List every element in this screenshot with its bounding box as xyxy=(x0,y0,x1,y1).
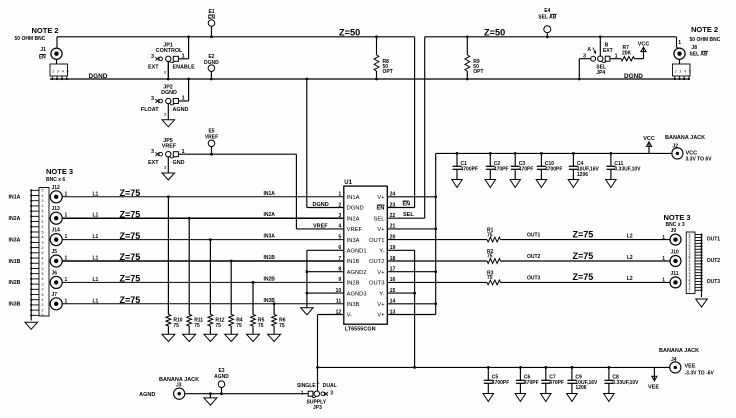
svg-text:L1: L1 xyxy=(93,256,99,262)
svg-text:BNC x 6: BNC x 6 xyxy=(46,177,65,183)
svg-text:VCC: VCC xyxy=(638,42,650,48)
svg-text:5: 5 xyxy=(42,230,44,234)
svg-text:E4: E4 xyxy=(544,8,550,14)
svg-text:J6: J6 xyxy=(52,270,58,276)
svg-text:1: 1 xyxy=(182,149,185,155)
svg-text:Z=75: Z=75 xyxy=(120,188,141,198)
svg-text:1: 1 xyxy=(662,278,665,284)
svg-text:VEE: VEE xyxy=(648,385,659,391)
svg-text:0.33UF,10V: 0.33UF,10V xyxy=(612,380,639,386)
svg-text:L1: L1 xyxy=(93,277,99,283)
svg-text:DGND: DGND xyxy=(313,202,329,208)
svg-text:V+: V+ xyxy=(377,270,385,276)
svg-text:EN: EN xyxy=(376,206,384,212)
svg-text:VEE: VEE xyxy=(685,364,696,370)
svg-text:1: 1 xyxy=(65,256,68,262)
svg-text:75: 75 xyxy=(173,323,179,329)
svg-text:SINGLE: SINGLE xyxy=(297,383,316,389)
svg-text:L2: L2 xyxy=(627,276,633,282)
svg-text:5: 5 xyxy=(42,189,44,193)
svg-text:VREF: VREF xyxy=(205,135,218,141)
svg-text:V+: V+ xyxy=(377,302,385,308)
svg-text:OUT1: OUT1 xyxy=(527,233,541,239)
svg-text:75: 75 xyxy=(236,323,242,329)
svg-text:2: 2 xyxy=(52,70,54,74)
svg-text:L1: L1 xyxy=(93,191,99,197)
svg-text:4700PF: 4700PF xyxy=(492,380,510,386)
svg-text:75: 75 xyxy=(487,254,493,260)
svg-text:4: 4 xyxy=(42,298,44,302)
svg-text:1: 1 xyxy=(662,235,665,241)
svg-text:22: 22 xyxy=(390,213,396,219)
svg-text:J3: J3 xyxy=(176,383,182,389)
svg-text:Z=75: Z=75 xyxy=(120,209,141,219)
svg-text:3: 3 xyxy=(42,262,44,266)
svg-text:3: 3 xyxy=(151,149,154,155)
svg-text:4: 4 xyxy=(684,70,686,74)
svg-text:5: 5 xyxy=(689,70,691,74)
svg-text:IN2B: IN2B xyxy=(9,280,21,286)
svg-text:VCC: VCC xyxy=(643,136,655,142)
svg-text:4: 4 xyxy=(338,224,341,230)
svg-text:J13: J13 xyxy=(52,206,61,212)
svg-text:IN3A: IN3A xyxy=(264,234,276,240)
svg-text:BANANA JACK: BANANA JACK xyxy=(665,135,705,141)
svg-text:470PF: 470PF xyxy=(519,167,534,173)
svg-text:50 OHM BNC: 50 OHM BNC xyxy=(690,37,721,43)
svg-text:NOTE 3: NOTE 3 xyxy=(664,213,691,222)
svg-text:2: 2 xyxy=(164,166,166,170)
svg-text:2: 2 xyxy=(42,246,44,250)
svg-text:JP4: JP4 xyxy=(596,70,605,76)
svg-text:470PF: 470PF xyxy=(494,167,509,173)
svg-text:SEL AB: SEL AB xyxy=(538,15,556,21)
svg-text:JP3: JP3 xyxy=(313,405,322,411)
svg-text:IN1B: IN1B xyxy=(347,259,360,265)
svg-text:3: 3 xyxy=(57,70,59,74)
svg-text:OUT2: OUT2 xyxy=(707,258,721,264)
svg-text:2: 2 xyxy=(42,308,44,312)
svg-text:3: 3 xyxy=(679,70,681,74)
svg-text:AGND: AGND xyxy=(214,374,229,380)
svg-text:V+: V+ xyxy=(377,313,385,319)
svg-text:V+: V+ xyxy=(377,195,385,201)
svg-text:FLOAT: FLOAT xyxy=(141,107,159,113)
svg-text:EXT: EXT xyxy=(148,160,159,166)
svg-text:Z=75: Z=75 xyxy=(573,251,594,261)
svg-text:3: 3 xyxy=(330,391,333,397)
svg-text:5: 5 xyxy=(67,70,69,74)
svg-text:SEL: SEL xyxy=(374,216,386,222)
svg-text:VREF: VREF xyxy=(162,143,177,149)
svg-text:EN: EN xyxy=(208,15,215,21)
svg-text:BNC x 3: BNC x 3 xyxy=(666,222,685,228)
svg-text:Z=75: Z=75 xyxy=(120,274,141,284)
svg-text:OUT1: OUT1 xyxy=(369,238,384,244)
svg-text:IN1B: IN1B xyxy=(9,259,21,265)
svg-text:75: 75 xyxy=(258,323,264,329)
svg-text:IN3A: IN3A xyxy=(347,238,360,244)
svg-text:J1: J1 xyxy=(40,47,46,53)
svg-text:3: 3 xyxy=(42,220,44,224)
svg-text:4: 4 xyxy=(42,194,44,198)
svg-text:3: 3 xyxy=(42,199,44,203)
svg-text:DUAL: DUAL xyxy=(323,383,337,389)
svg-text:L2: L2 xyxy=(627,255,633,261)
svg-text:J4: J4 xyxy=(671,357,677,363)
svg-text:1: 1 xyxy=(65,277,68,283)
svg-text:GND: GND xyxy=(173,160,185,166)
svg-text:Z=75: Z=75 xyxy=(573,229,594,239)
svg-text:IN3B: IN3B xyxy=(347,302,360,308)
svg-text:EN: EN xyxy=(39,55,46,61)
svg-text:OPT: OPT xyxy=(473,69,483,75)
svg-text:5: 5 xyxy=(42,314,44,318)
svg-text:IN2A: IN2A xyxy=(347,216,360,222)
svg-text:4: 4 xyxy=(42,277,44,281)
svg-text:75: 75 xyxy=(487,232,493,238)
svg-text:DGND: DGND xyxy=(624,73,643,80)
svg-text:2: 2 xyxy=(164,70,166,74)
svg-text:L2: L2 xyxy=(627,233,633,239)
svg-text:2: 2 xyxy=(689,288,691,292)
svg-text:1: 1 xyxy=(65,191,68,197)
svg-text:Y-: Y- xyxy=(379,291,384,297)
svg-text:ENABLE: ENABLE xyxy=(173,65,196,71)
svg-text:AGND1: AGND1 xyxy=(347,249,367,255)
svg-text:IN3A: IN3A xyxy=(9,237,21,243)
svg-text:NOTE 2: NOTE 2 xyxy=(32,26,59,35)
svg-text:20K: 20K xyxy=(622,50,632,56)
svg-text:2: 2 xyxy=(164,113,166,117)
svg-text:OUT2: OUT2 xyxy=(369,259,384,265)
svg-text:5: 5 xyxy=(42,209,44,213)
svg-text:NOTE 2: NOTE 2 xyxy=(691,25,718,34)
svg-text:3: 3 xyxy=(583,53,586,59)
svg-text:0.33UF,10V: 0.33UF,10V xyxy=(614,167,641,173)
svg-text:Y-: Y- xyxy=(379,249,384,255)
svg-text:1: 1 xyxy=(65,298,68,304)
svg-text:VREF: VREF xyxy=(313,223,328,229)
svg-text:50 OHM BNC: 50 OHM BNC xyxy=(15,36,46,42)
svg-text:2: 2 xyxy=(338,202,341,208)
svg-text:3: 3 xyxy=(42,282,44,286)
svg-text:V-: V- xyxy=(347,313,353,319)
svg-text:L1: L1 xyxy=(93,298,99,304)
svg-text:1: 1 xyxy=(662,256,665,262)
svg-text:OUT2: OUT2 xyxy=(527,254,541,260)
svg-text:EN: EN xyxy=(403,202,411,208)
svg-text:Z=50: Z=50 xyxy=(484,28,505,38)
svg-text:4: 4 xyxy=(42,235,44,239)
svg-text:23: 23 xyxy=(390,202,396,208)
svg-text:75: 75 xyxy=(194,323,200,329)
svg-text:IN1A: IN1A xyxy=(347,195,360,201)
svg-text:BANANA JACK: BANANA JACK xyxy=(659,348,699,354)
svg-text:5: 5 xyxy=(42,251,44,255)
svg-text:LT6555CGN: LT6555CGN xyxy=(345,327,376,333)
svg-text:3: 3 xyxy=(42,241,44,245)
svg-text:EXT: EXT xyxy=(603,48,613,54)
svg-text:AGND: AGND xyxy=(139,392,155,398)
svg-text:IN1A: IN1A xyxy=(264,191,276,197)
svg-text:IN2A: IN2A xyxy=(9,216,21,222)
svg-text:3: 3 xyxy=(42,303,44,307)
svg-text:**: ** xyxy=(317,381,321,386)
svg-text:1: 1 xyxy=(182,53,185,59)
svg-text:470PF: 470PF xyxy=(549,380,564,386)
svg-text:AGND2: AGND2 xyxy=(347,270,367,276)
svg-text:IN2B: IN2B xyxy=(264,276,276,282)
svg-text:2: 2 xyxy=(675,70,677,74)
svg-text:5: 5 xyxy=(42,272,44,276)
svg-text:75: 75 xyxy=(279,323,285,329)
svg-text:AGND3: AGND3 xyxy=(347,291,367,297)
svg-text:DGND: DGND xyxy=(204,60,219,66)
svg-text:4: 4 xyxy=(42,256,44,260)
svg-text:CONTROL: CONTROL xyxy=(156,48,183,54)
svg-text:IN1A: IN1A xyxy=(9,195,21,201)
svg-text:1: 1 xyxy=(182,96,185,102)
svg-text:OUT1: OUT1 xyxy=(707,236,721,242)
svg-text:L1: L1 xyxy=(93,234,99,240)
svg-text:3: 3 xyxy=(151,96,154,102)
svg-text:J10: J10 xyxy=(671,250,680,256)
svg-text:SEL: SEL xyxy=(403,212,414,218)
svg-text:J9: J9 xyxy=(671,228,677,234)
svg-text:Z=75: Z=75 xyxy=(120,231,141,241)
svg-text:5: 5 xyxy=(42,293,44,297)
svg-text:AGND: AGND xyxy=(173,107,189,113)
svg-text:OPT: OPT xyxy=(383,69,393,75)
svg-text:Z=75: Z=75 xyxy=(120,252,141,262)
svg-text:V+: V+ xyxy=(377,227,385,233)
svg-text:OUT3: OUT3 xyxy=(707,279,721,285)
svg-text:DGND: DGND xyxy=(347,206,364,212)
svg-text:1: 1 xyxy=(65,213,68,219)
svg-text:L1: L1 xyxy=(93,213,99,219)
svg-text:1: 1 xyxy=(301,390,304,396)
svg-text:VREF: VREF xyxy=(347,227,363,233)
svg-text:IN2B: IN2B xyxy=(347,281,360,287)
svg-text:2: 2 xyxy=(42,225,44,229)
svg-text:4700PF: 4700PF xyxy=(545,167,563,173)
svg-text:4: 4 xyxy=(42,215,44,219)
svg-text:J2: J2 xyxy=(673,144,679,150)
svg-text:4: 4 xyxy=(62,70,64,74)
svg-text:J12: J12 xyxy=(52,185,61,191)
svg-text:75: 75 xyxy=(215,323,221,329)
svg-text:SEL AB: SEL AB xyxy=(690,52,708,58)
svg-text:2: 2 xyxy=(42,204,44,208)
svg-text:1206: 1206 xyxy=(577,172,588,178)
svg-text:-3.3V TO -6V: -3.3V TO -6V xyxy=(685,371,715,377)
svg-text:DGND: DGND xyxy=(161,90,177,96)
svg-text:A: A xyxy=(587,47,591,53)
svg-text:1: 1 xyxy=(678,40,681,46)
svg-text:J8: J8 xyxy=(692,45,698,51)
svg-text:1206: 1206 xyxy=(575,385,586,391)
svg-text:470PF: 470PF xyxy=(524,380,539,386)
svg-text:OUT3: OUT3 xyxy=(527,275,541,281)
svg-text:NOTE 3: NOTE 3 xyxy=(46,167,73,176)
svg-text:J11: J11 xyxy=(671,271,679,277)
svg-text:75: 75 xyxy=(487,275,493,281)
svg-text:Z=75: Z=75 xyxy=(573,272,594,282)
svg-text:Z=50: Z=50 xyxy=(339,28,360,38)
svg-text:2: 2 xyxy=(42,288,44,292)
svg-text:1: 1 xyxy=(65,234,68,240)
svg-text:4700PF: 4700PF xyxy=(461,167,479,173)
svg-text:J7: J7 xyxy=(52,292,58,298)
svg-text:U1: U1 xyxy=(344,180,352,186)
svg-text:IN2A: IN2A xyxy=(264,212,276,218)
svg-text:IN3B: IN3B xyxy=(9,302,21,308)
svg-text:Z=75: Z=75 xyxy=(120,295,141,305)
svg-text:3: 3 xyxy=(151,54,154,60)
svg-text:EXT: EXT xyxy=(148,65,159,71)
svg-text:J5: J5 xyxy=(52,249,58,255)
svg-text:J14: J14 xyxy=(52,228,61,234)
svg-text:OUT3: OUT3 xyxy=(369,281,384,287)
svg-text:3.3V TO 6V: 3.3V TO 6V xyxy=(686,157,713,163)
svg-text:IN1B: IN1B xyxy=(264,255,276,261)
svg-text:2: 2 xyxy=(42,267,44,271)
svg-text:DGND: DGND xyxy=(89,73,108,80)
